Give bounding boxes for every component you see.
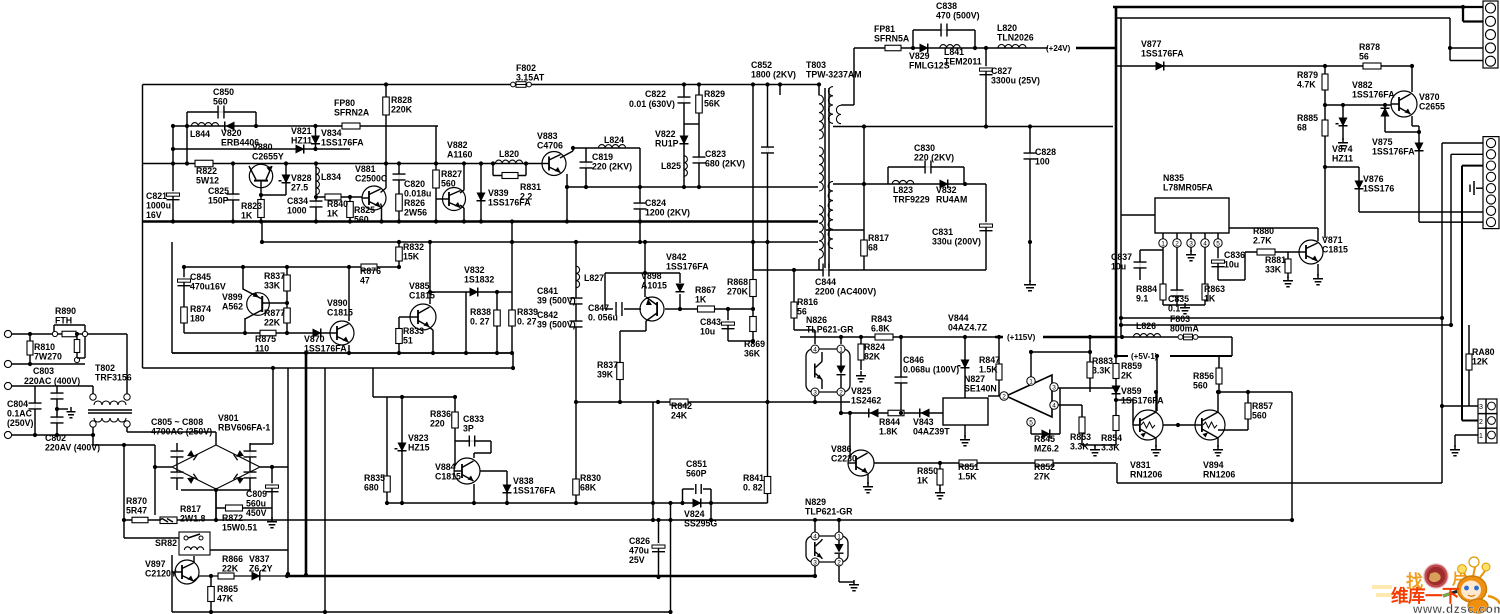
- svg-text:R890: R890: [55, 306, 76, 316]
- svg-text:V801: V801: [218, 413, 239, 423]
- svg-text:220: 220: [430, 419, 445, 429]
- svg-text:04AZ39T: 04AZ39T: [913, 427, 950, 437]
- svg-text:C819: C819: [592, 152, 613, 162]
- svg-text:R845: R845: [1034, 434, 1055, 444]
- svg-text:C831: C831: [932, 227, 953, 237]
- svg-text:2.7K: 2.7K: [1253, 236, 1272, 246]
- svg-text:2: 2: [1175, 241, 1179, 248]
- svg-text:C841: C841: [537, 286, 558, 296]
- svg-text:1SS176FA: 1SS176FA: [1141, 49, 1184, 59]
- svg-text:MZ6.2: MZ6.2: [1034, 444, 1059, 454]
- svg-text:4: 4: [813, 534, 817, 541]
- svg-text:560: 560: [1252, 411, 1267, 421]
- svg-text:R823: R823: [241, 201, 262, 211]
- svg-text:R850: R850: [917, 466, 938, 476]
- svg-text:16V: 16V: [146, 210, 162, 220]
- svg-text:V822: V822: [655, 129, 676, 139]
- svg-text:12K: 12K: [1472, 357, 1489, 367]
- svg-text:L841: L841: [944, 47, 964, 57]
- svg-text:V832: V832: [936, 185, 957, 195]
- svg-text:R847: R847: [979, 355, 1000, 365]
- svg-text:1SS176FA: 1SS176FA: [1372, 147, 1415, 157]
- svg-text:R863: R863: [1204, 284, 1225, 294]
- svg-text:100: 100: [1035, 157, 1050, 167]
- svg-text:C845: C845: [190, 272, 211, 282]
- svg-text:C802: C802: [45, 433, 66, 443]
- svg-text:680 (2KV): 680 (2KV): [705, 159, 745, 169]
- svg-text:82K: 82K: [864, 352, 881, 362]
- svg-text:450V: 450V: [246, 508, 267, 518]
- svg-text:220AC (400V): 220AC (400V): [24, 376, 80, 386]
- svg-text:6.8K: 6.8K: [871, 324, 890, 334]
- svg-text:220 (2KV): 220 (2KV): [592, 162, 632, 172]
- svg-text:RU1P: RU1P: [655, 139, 679, 149]
- svg-text:R824: R824: [864, 342, 885, 352]
- svg-text:220K: 220K: [391, 105, 413, 115]
- svg-text:3: 3: [1479, 404, 1483, 411]
- svg-text:V828: V828: [291, 173, 312, 183]
- svg-text:1SS176: 1SS176: [1363, 184, 1394, 194]
- svg-text:R840: R840: [327, 199, 348, 209]
- svg-text:HZ11: HZ11: [291, 136, 312, 146]
- svg-text:R867: R867: [695, 285, 716, 295]
- svg-text:L826: L826: [1136, 321, 1156, 331]
- svg-text:0.1: 0.1: [1168, 304, 1180, 314]
- svg-text:R883: R883: [1092, 356, 1113, 366]
- svg-text:1K: 1K: [917, 476, 929, 486]
- svg-text:R878: R878: [1359, 42, 1380, 52]
- svg-text:V882: V882: [1352, 80, 1373, 90]
- svg-text:3: 3: [1052, 385, 1056, 392]
- svg-text:R842: R842: [671, 401, 692, 411]
- svg-text:R817: R817: [180, 504, 201, 514]
- svg-text:1S2462: 1S2462: [851, 396, 881, 406]
- svg-text:V881: V881: [355, 164, 376, 174]
- svg-text:39K: 39K: [597, 370, 614, 380]
- svg-text:1: 1: [839, 347, 843, 354]
- svg-text:470u: 470u: [629, 546, 649, 556]
- svg-text:V898: V898: [641, 271, 662, 281]
- svg-text:R851: R851: [958, 462, 979, 472]
- svg-text:N835: N835: [1163, 173, 1184, 183]
- svg-text:1200 (2KV): 1200 (2KV): [645, 208, 690, 218]
- svg-text:V859: V859: [1121, 386, 1142, 396]
- svg-text:10u: 10u: [1111, 262, 1126, 272]
- svg-text:R874: R874: [190, 304, 211, 314]
- svg-text:2K: 2K: [1121, 371, 1133, 381]
- svg-text:V885: V885: [409, 281, 430, 291]
- svg-text:3.15AT: 3.15AT: [516, 73, 545, 83]
- svg-text:7W270: 7W270: [34, 352, 62, 362]
- svg-text:N827: N827: [964, 374, 985, 384]
- svg-text:04AZ4.7Z: 04AZ4.7Z: [948, 323, 988, 333]
- svg-text:R838: R838: [470, 307, 491, 317]
- svg-text:(+5V-1): (+5V-1): [1131, 352, 1158, 361]
- svg-text:4: 4: [1052, 403, 1056, 410]
- svg-text:V834: V834: [321, 128, 342, 138]
- svg-text:SR82: SR82: [155, 538, 177, 548]
- svg-text:R868: R868: [727, 277, 748, 287]
- svg-text:L827: L827: [584, 273, 604, 283]
- svg-text:0.068u (100V): 0.068u (100V): [903, 365, 959, 375]
- svg-text:470u16V: 470u16V: [190, 282, 226, 292]
- svg-text:R837: R837: [264, 271, 285, 281]
- svg-text:RA80: RA80: [1472, 347, 1495, 357]
- svg-text:0. 056u: 0. 056u: [588, 313, 618, 323]
- svg-text:V825: V825: [851, 386, 872, 396]
- svg-text:51: 51: [403, 336, 413, 346]
- svg-text:2200 (AC400V): 2200 (AC400V): [815, 287, 876, 297]
- svg-text:560P: 560P: [686, 469, 707, 479]
- svg-text:L823: L823: [893, 185, 913, 195]
- svg-text:560u: 560u: [246, 499, 266, 509]
- svg-text:C1815: C1815: [327, 308, 353, 318]
- svg-text:L78MR05FA: L78MR05FA: [1163, 183, 1214, 193]
- svg-text:56K: 56K: [704, 99, 721, 109]
- svg-text:R884: R884: [1136, 284, 1157, 294]
- svg-text:C836: C836: [1224, 250, 1245, 260]
- svg-text:C834: C834: [287, 196, 308, 206]
- svg-text:22K: 22K: [222, 564, 239, 574]
- svg-text:C850: C850: [213, 87, 234, 97]
- svg-text:SE140N: SE140N: [964, 384, 997, 394]
- svg-text:TLP621-GR: TLP621-GR: [806, 325, 854, 335]
- svg-text:1SS176FA: 1SS176FA: [1352, 90, 1395, 100]
- svg-text:0.1AC: 0.1AC: [7, 409, 33, 419]
- svg-text:220 (2KV): 220 (2KV): [914, 153, 954, 163]
- svg-text:560: 560: [354, 215, 369, 225]
- svg-text:C838: C838: [936, 1, 957, 11]
- svg-text:270K: 270K: [727, 287, 749, 297]
- svg-text:560: 560: [441, 179, 456, 189]
- svg-text:560: 560: [1193, 381, 1208, 391]
- svg-text:C821: C821: [146, 191, 167, 201]
- svg-text:C1815: C1815: [435, 472, 461, 482]
- svg-text:A1015: A1015: [641, 281, 667, 291]
- svg-text:TLN2026: TLN2026: [997, 33, 1034, 43]
- svg-text:V890: V890: [327, 298, 348, 308]
- svg-text:R839: R839: [517, 307, 538, 317]
- svg-text:1.5K: 1.5K: [979, 365, 998, 375]
- svg-text:V842: V842: [666, 252, 687, 262]
- svg-text:R852: R852: [1034, 462, 1055, 472]
- svg-text:TLP621-GR: TLP621-GR: [805, 507, 853, 517]
- svg-text:R836: R836: [430, 409, 451, 419]
- svg-text:4: 4: [813, 347, 817, 354]
- svg-text:68K: 68K: [580, 483, 597, 493]
- svg-text:R859: R859: [1121, 361, 1142, 371]
- svg-text:27K: 27K: [1034, 472, 1051, 482]
- svg-text:C837: C837: [1111, 252, 1132, 262]
- svg-text:V824: V824: [684, 509, 705, 519]
- svg-text:R831: R831: [520, 182, 541, 192]
- svg-text:47: 47: [360, 276, 370, 286]
- svg-text:25V: 25V: [629, 555, 645, 565]
- svg-text:V882: V882: [447, 140, 468, 150]
- svg-text:2W1.8: 2W1.8: [180, 514, 206, 524]
- svg-text:150P: 150P: [208, 196, 229, 206]
- svg-text:1S1832: 1S1832: [464, 275, 494, 285]
- svg-text:C2120Y: C2120Y: [145, 569, 177, 579]
- svg-text:2: 2: [839, 390, 843, 397]
- svg-text:15W0.51: 15W0.51: [222, 523, 257, 533]
- svg-text:47K: 47K: [217, 594, 234, 604]
- svg-text:R841: R841: [743, 473, 764, 483]
- svg-text:110: 110: [255, 344, 269, 354]
- svg-text:4.7K: 4.7K: [1297, 80, 1316, 90]
- svg-text:C835: C835: [1168, 294, 1189, 304]
- svg-text:1SS176FA: 1SS176FA: [666, 262, 709, 272]
- svg-text:R835: R835: [364, 473, 385, 483]
- svg-text:V894: V894: [1203, 460, 1224, 470]
- svg-text:R810: R810: [34, 342, 55, 352]
- svg-text:39 (500V): 39 (500V): [537, 296, 576, 306]
- svg-text:330u (200V): 330u (200V): [932, 237, 981, 247]
- svg-text:68: 68: [1297, 123, 1307, 133]
- svg-text:L834: L834: [321, 172, 341, 182]
- svg-text:SS295G: SS295G: [684, 519, 717, 529]
- svg-text:5R47: 5R47: [126, 506, 147, 516]
- svg-text:5W12: 5W12: [196, 176, 219, 186]
- svg-text:FTH: FTH: [55, 316, 72, 326]
- svg-text:R866: R866: [222, 554, 243, 564]
- svg-text:TPW-3237AM: TPW-3237AM: [806, 70, 862, 80]
- svg-text:56: 56: [1359, 52, 1369, 62]
- svg-text:V870: V870: [1419, 92, 1440, 102]
- svg-text:0.01 (630V): 0.01 (630V): [629, 99, 675, 109]
- svg-text:C851: C851: [686, 459, 707, 469]
- svg-text:R870: R870: [126, 496, 147, 506]
- svg-text:R881: R881: [1265, 255, 1286, 265]
- svg-text:V876: V876: [1363, 174, 1384, 184]
- svg-text:FP80: FP80: [334, 98, 355, 108]
- svg-text:180: 180: [190, 314, 205, 324]
- svg-text:24K: 24K: [671, 411, 688, 421]
- svg-text:1800 (2KV): 1800 (2KV): [751, 70, 796, 80]
- svg-text:R830: R830: [580, 473, 601, 483]
- svg-text:C830: C830: [914, 143, 935, 153]
- svg-text:N829: N829: [805, 497, 826, 507]
- svg-text:N826: N826: [806, 315, 827, 325]
- svg-text:C828: C828: [1035, 147, 1056, 157]
- svg-text:R856: R856: [1193, 371, 1214, 381]
- svg-text:V838: V838: [513, 476, 534, 486]
- svg-text:C846: C846: [903, 355, 924, 365]
- svg-text:470 (500V): 470 (500V): [936, 11, 980, 21]
- svg-text:2W56: 2W56: [404, 208, 427, 218]
- svg-text:1.5K: 1.5K: [958, 472, 977, 482]
- svg-text:R872: R872: [222, 513, 243, 523]
- svg-text:R865: R865: [217, 584, 238, 594]
- svg-text:R877: R877: [264, 308, 285, 318]
- svg-text:V829: V829: [909, 51, 930, 61]
- svg-text:FP81: FP81: [874, 24, 895, 34]
- svg-text:3.3K: 3.3K: [1070, 442, 1089, 452]
- svg-text:C852: C852: [751, 60, 772, 70]
- svg-text:4: 4: [1203, 241, 1207, 248]
- svg-text:V884: V884: [435, 462, 456, 472]
- svg-text:TRF3156: TRF3156: [95, 373, 132, 383]
- svg-text:1SS176FA: 1SS176FA: [1121, 396, 1164, 406]
- svg-text:R843: R843: [871, 314, 892, 324]
- svg-text:Z6.2Y: Z6.2Y: [249, 564, 273, 574]
- svg-text:1SS176FA: 1SS176FA: [321, 138, 364, 148]
- svg-text:220AV (400V): 220AV (400V): [45, 443, 100, 453]
- svg-text:R879: R879: [1297, 70, 1318, 80]
- svg-text:1K: 1K: [241, 211, 253, 221]
- svg-text:C824: C824: [645, 198, 666, 208]
- svg-text:C822: C822: [645, 89, 666, 99]
- svg-text:L820: L820: [997, 23, 1017, 33]
- svg-text:C2500C: C2500C: [355, 174, 388, 184]
- svg-text:V844: V844: [948, 313, 969, 323]
- svg-text:C803: C803: [33, 366, 54, 376]
- svg-text:V837: V837: [249, 554, 270, 564]
- svg-text:R844: R844: [879, 417, 900, 427]
- svg-text:RN1206: RN1206: [1130, 470, 1162, 480]
- svg-text:HZ15: HZ15: [408, 443, 430, 453]
- svg-text:3: 3: [813, 560, 817, 567]
- svg-text:33K: 33K: [1265, 265, 1282, 275]
- svg-text:V839: V839: [488, 188, 509, 198]
- svg-text:C2230: C2230: [831, 454, 857, 464]
- svg-text:0. 82: 0. 82: [743, 483, 763, 493]
- svg-text:R869: R869: [744, 339, 765, 349]
- svg-text:C826: C826: [629, 536, 650, 546]
- svg-text:2: 2: [1479, 419, 1483, 426]
- svg-text:3.3K: 3.3K: [1092, 366, 1111, 376]
- svg-text:33K: 33K: [264, 281, 281, 291]
- svg-text:9.1: 9.1: [1136, 294, 1148, 304]
- svg-text:V880: V880: [252, 142, 273, 152]
- svg-text:R854: R854: [1101, 433, 1122, 443]
- svg-text:0. 27: 0. 27: [470, 317, 490, 327]
- svg-text:R876: R876: [360, 266, 381, 276]
- svg-text:R816: R816: [797, 297, 818, 307]
- svg-text:C833: C833: [463, 414, 484, 424]
- svg-text:2.2: 2.2: [520, 192, 532, 202]
- svg-text:1000u: 1000u: [146, 201, 171, 211]
- svg-text:R885: R885: [1297, 113, 1318, 123]
- svg-text:C804: C804: [7, 399, 28, 409]
- svg-text:27.5: 27.5: [291, 183, 308, 193]
- svg-text:L824: L824: [604, 135, 624, 145]
- svg-text:C2655Y: C2655Y: [252, 152, 284, 162]
- svg-text:R825: R825: [354, 205, 375, 215]
- svg-text:C842: C842: [537, 310, 558, 320]
- svg-text:V877: V877: [1141, 39, 1162, 49]
- svg-text:V871: V871: [1322, 235, 1343, 245]
- svg-text:R833: R833: [403, 326, 424, 336]
- svg-text:V897: V897: [145, 559, 166, 569]
- svg-text:C809: C809: [246, 489, 267, 499]
- svg-text:C2655: C2655: [1419, 102, 1445, 112]
- svg-text:36K: 36K: [744, 349, 761, 359]
- svg-text:10u: 10u: [1224, 260, 1239, 270]
- svg-text:V843: V843: [913, 417, 934, 427]
- svg-text:5: 5: [1029, 420, 1033, 427]
- svg-text:R822: R822: [196, 166, 217, 176]
- svg-text:(+115V): (+115V): [1007, 333, 1036, 342]
- svg-text:T803: T803: [806, 60, 826, 70]
- svg-text:RN1206: RN1206: [1203, 470, 1235, 480]
- svg-text:1K: 1K: [695, 295, 707, 305]
- svg-text:800mA: 800mA: [1170, 324, 1199, 334]
- svg-text:www.dzsc.com: www.dzsc.com: [1412, 602, 1500, 614]
- svg-text:1SS176FA: 1SS176FA: [304, 344, 347, 354]
- svg-text:V832: V832: [464, 265, 485, 275]
- svg-text:V875: V875: [1372, 137, 1393, 147]
- svg-text:1K: 1K: [1204, 294, 1216, 304]
- svg-text:V870: V870: [304, 334, 325, 344]
- svg-text:T802: T802: [95, 363, 115, 373]
- svg-text:R827: R827: [441, 169, 462, 179]
- svg-text:V821: V821: [291, 126, 312, 136]
- svg-text:C820: C820: [404, 179, 425, 189]
- svg-text:R853: R853: [1070, 432, 1091, 442]
- svg-text:C1815: C1815: [1322, 245, 1348, 255]
- svg-text:A1160: A1160: [447, 150, 473, 160]
- svg-text:3: 3: [1189, 241, 1193, 248]
- svg-text:RU4AM: RU4AM: [936, 195, 967, 205]
- svg-text:L844: L844: [190, 129, 210, 139]
- svg-text:1: 1: [1029, 379, 1033, 386]
- svg-text:HZ11: HZ11: [1332, 154, 1353, 164]
- svg-text:R829: R829: [704, 89, 725, 99]
- svg-text:L825: L825: [661, 161, 681, 171]
- svg-text:C827: C827: [991, 66, 1012, 76]
- svg-text:C805 ~ C808: C805 ~ C808: [151, 417, 203, 427]
- svg-text:F802: F802: [516, 63, 536, 73]
- svg-text:1: 1: [837, 534, 841, 541]
- svg-text:3: 3: [813, 390, 817, 397]
- svg-text:R880: R880: [1253, 226, 1274, 236]
- svg-text:V886: V886: [831, 444, 852, 454]
- svg-text:1SS176FA: 1SS176FA: [513, 486, 556, 496]
- svg-text:(+24V): (+24V): [1046, 44, 1071, 53]
- svg-text:R837: R837: [597, 360, 618, 370]
- svg-text:680: 680: [364, 483, 379, 493]
- svg-text:1K: 1K: [327, 209, 339, 219]
- svg-text:1: 1: [1161, 241, 1165, 248]
- svg-text:R857: R857: [1252, 401, 1273, 411]
- svg-text:C823: C823: [705, 149, 726, 159]
- svg-text:V823: V823: [408, 433, 429, 443]
- svg-text:V874: V874: [1332, 144, 1353, 154]
- svg-text:3.3K: 3.3K: [1101, 443, 1120, 453]
- svg-text:C1815: C1815: [409, 291, 435, 301]
- svg-text:10u: 10u: [700, 327, 715, 337]
- svg-text:4700AC (250V): 4700AC (250V): [151, 427, 212, 437]
- svg-text:L820: L820: [499, 149, 519, 159]
- svg-text:SFRN2A: SFRN2A: [334, 108, 370, 118]
- svg-text:R828: R828: [391, 95, 412, 105]
- svg-text:A562: A562: [222, 302, 243, 312]
- svg-text:5: 5: [1216, 241, 1220, 248]
- svg-text:TRF9229: TRF9229: [893, 195, 930, 205]
- svg-text:3P: 3P: [463, 424, 474, 434]
- svg-text:1000: 1000: [287, 206, 307, 216]
- svg-text:V899: V899: [222, 292, 243, 302]
- svg-text:C843: C843: [700, 317, 721, 327]
- svg-text:R875: R875: [255, 334, 276, 344]
- svg-text:22K: 22K: [264, 318, 281, 328]
- svg-text:C4706: C4706: [537, 141, 563, 151]
- svg-text:SFRN5A: SFRN5A: [874, 34, 910, 44]
- svg-text:39 (500V): 39 (500V): [537, 320, 576, 330]
- svg-text:(250V): (250V): [7, 418, 33, 428]
- svg-text:TEM2011: TEM2011: [944, 57, 982, 67]
